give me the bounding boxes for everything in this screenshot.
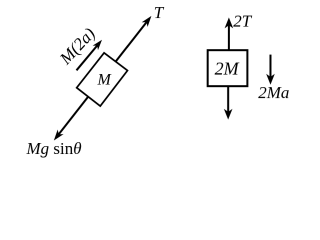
acceleration arrow M(2a) along incline bbox=[76, 40, 102, 71]
arrowhead of Mg sin-theta arrow bbox=[54, 130, 64, 141]
svg-text:Mg sinθ: Mg sinθ bbox=[25, 139, 81, 158]
weight arrow downward from block 2M bbox=[224, 86, 233, 119]
acceleration arrow 2Ma downward bbox=[266, 55, 275, 85]
arrowhead of tension arrow T bbox=[142, 16, 152, 27]
main incline axis line (T / Mg sin-theta) bbox=[56, 19, 149, 137]
svg-text:M: M bbox=[96, 72, 112, 89]
block 2M box bbox=[208, 50, 248, 86]
svg-text:2M: 2M bbox=[215, 58, 240, 78]
svg-text:T: T bbox=[154, 3, 165, 22]
tension arrow 2T upward bbox=[225, 17, 234, 50]
block M box bbox=[77, 53, 128, 106]
svg-text:2T: 2T bbox=[233, 12, 253, 31]
svg-text:2Ma: 2Ma bbox=[258, 83, 289, 102]
svg-text:M(2a): M(2a) bbox=[55, 24, 99, 69]
